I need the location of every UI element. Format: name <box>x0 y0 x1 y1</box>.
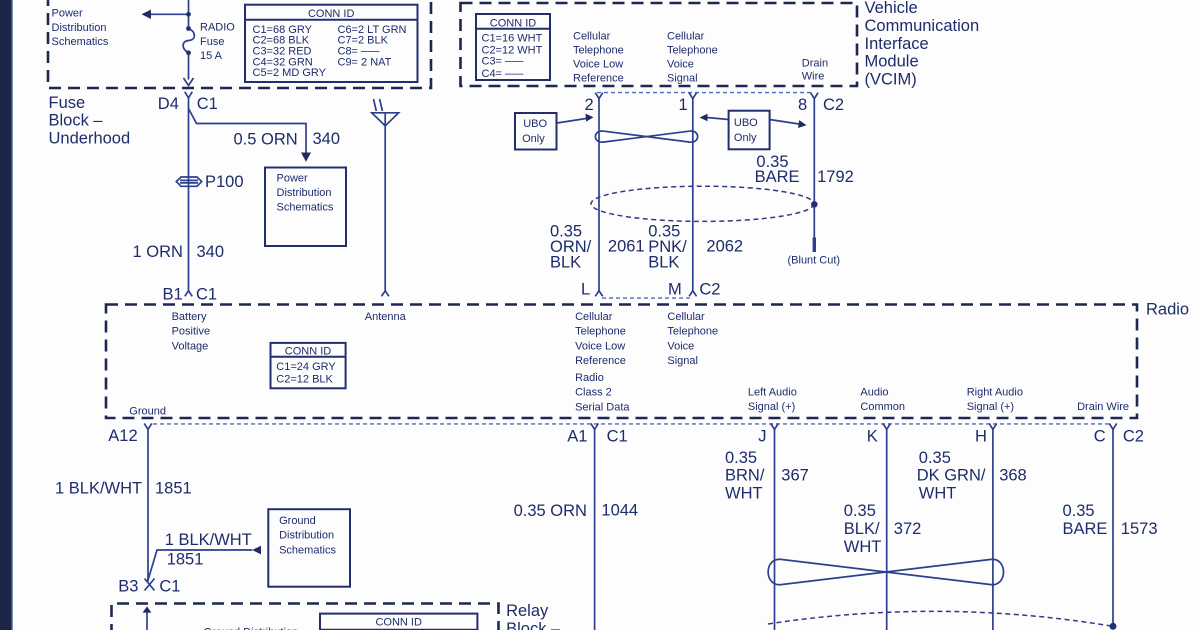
svg-text:Communication: Communication <box>865 17 980 35</box>
svg-text:B1: B1 <box>163 286 183 304</box>
svg-text:(Blunt Cut): (Blunt Cut) <box>788 254 841 266</box>
svg-text:Drain: Drain <box>802 57 828 69</box>
svg-text:BARE: BARE <box>755 168 800 186</box>
svg-text:CONN ID: CONN ID <box>285 346 332 358</box>
svg-text:Distribution: Distribution <box>279 530 334 542</box>
svg-text:Cellular: Cellular <box>667 311 705 323</box>
svg-text:Power: Power <box>52 8 84 20</box>
svg-text:Cellular: Cellular <box>573 31 611 43</box>
svg-text:C1: C1 <box>159 578 180 596</box>
svg-text:Schematics: Schematics <box>279 544 336 556</box>
svg-text:Telephone: Telephone <box>575 326 626 338</box>
svg-text:Underhood: Underhood <box>49 130 131 148</box>
svg-text:Fuse: Fuse <box>200 36 224 48</box>
svg-text:A1: A1 <box>567 428 587 446</box>
svg-text:0.35: 0.35 <box>844 502 876 520</box>
svg-text:Ground: Ground <box>129 406 166 418</box>
svg-text:K: K <box>867 428 878 446</box>
svg-text:BRN/: BRN/ <box>725 467 765 485</box>
svg-text:Reference: Reference <box>575 355 626 367</box>
svg-text:Telephone: Telephone <box>667 45 718 57</box>
svg-text:Vehicle: Vehicle <box>865 0 918 17</box>
svg-text:C1: C1 <box>607 428 628 446</box>
svg-text:Serial Data: Serial Data <box>575 401 630 413</box>
svg-text:0.35 ORN: 0.35 ORN <box>514 502 587 520</box>
svg-text:RADIO: RADIO <box>200 21 235 33</box>
svg-text:BARE: BARE <box>1063 520 1108 538</box>
svg-text:C2: C2 <box>1123 428 1144 446</box>
svg-text:J: J <box>758 428 766 446</box>
svg-text:Schematics: Schematics <box>52 36 109 48</box>
svg-text:CONN ID: CONN ID <box>375 616 422 628</box>
svg-text:C3= –––: C3= ––– <box>482 55 525 67</box>
svg-text:C4= –––: C4= ––– <box>482 68 525 80</box>
svg-text:CONN ID: CONN ID <box>308 8 355 20</box>
svg-text:C2: C2 <box>823 96 844 114</box>
svg-text:C1: C1 <box>197 95 218 113</box>
svg-text:15 A: 15 A <box>200 50 223 62</box>
svg-text:Signal (+): Signal (+) <box>967 401 1014 413</box>
svg-text:BLK: BLK <box>550 254 581 272</box>
svg-text:Block –: Block – <box>49 112 104 130</box>
svg-text:C1: C1 <box>196 286 217 304</box>
svg-text:Cellular: Cellular <box>667 31 705 43</box>
svg-text:Battery: Battery <box>172 311 207 323</box>
svg-text:UBO: UBO <box>734 117 758 129</box>
svg-text:Interface: Interface <box>865 35 929 53</box>
svg-text:1044: 1044 <box>601 501 638 519</box>
svg-text:Voice Low: Voice Low <box>573 59 623 71</box>
svg-text:Ground Distribution: Ground Distribution <box>203 627 298 630</box>
svg-text:0.35: 0.35 <box>919 449 951 467</box>
svg-text:1851: 1851 <box>155 480 192 498</box>
svg-text:Voltage: Voltage <box>172 340 209 352</box>
svg-text:367: 367 <box>781 467 809 485</box>
svg-text:Antenna: Antenna <box>365 311 407 323</box>
svg-text:Cellular: Cellular <box>575 311 613 323</box>
svg-text:1: 1 <box>679 96 688 114</box>
svg-text:Positive: Positive <box>172 326 211 338</box>
svg-text:BLK/: BLK/ <box>844 520 880 538</box>
svg-text:A12: A12 <box>108 427 137 445</box>
svg-text:Audio: Audio <box>860 386 888 398</box>
svg-text:Signal (+): Signal (+) <box>748 401 795 413</box>
svg-text:340: 340 <box>197 243 225 261</box>
svg-text:C1=24 GRY: C1=24 GRY <box>276 361 336 373</box>
svg-text:BLK: BLK <box>648 254 679 272</box>
svg-text:Distribution: Distribution <box>52 22 107 34</box>
svg-text:8: 8 <box>798 96 807 114</box>
svg-text:Power: Power <box>277 172 309 184</box>
svg-text:D4: D4 <box>158 95 179 113</box>
svg-text:Common: Common <box>860 401 905 413</box>
svg-text:368: 368 <box>999 467 1027 485</box>
svg-text:Ground: Ground <box>279 515 316 527</box>
svg-text:Drain Wire: Drain Wire <box>1077 401 1129 413</box>
svg-text:1 BLK/WHT: 1 BLK/WHT <box>165 531 252 549</box>
svg-text:(VCIM): (VCIM) <box>865 70 917 88</box>
svg-text:340: 340 <box>313 130 341 148</box>
svg-text:2: 2 <box>585 96 594 114</box>
svg-text:Radio: Radio <box>575 372 604 384</box>
svg-text:0.5 ORN: 0.5 ORN <box>234 130 298 148</box>
svg-text:CONN ID: CONN ID <box>490 17 537 29</box>
svg-text:Distribution: Distribution <box>277 187 332 199</box>
svg-text:Voice: Voice <box>667 59 694 71</box>
svg-text:H: H <box>975 428 987 446</box>
svg-text:Class 2: Class 2 <box>575 387 612 399</box>
svg-text:Relay: Relay <box>506 602 549 620</box>
svg-text:Voice Low: Voice Low <box>575 340 625 352</box>
svg-text:Voice: Voice <box>667 340 694 352</box>
svg-text:M: M <box>668 281 682 299</box>
svg-text:Only: Only <box>522 133 545 145</box>
svg-text:WHT: WHT <box>919 484 957 502</box>
svg-text:1792: 1792 <box>817 168 854 186</box>
svg-text:1 ORN: 1 ORN <box>133 243 183 261</box>
svg-text:2062: 2062 <box>706 238 743 256</box>
svg-text:C2: C2 <box>699 281 720 299</box>
svg-text:Telephone: Telephone <box>667 326 718 338</box>
svg-text:1573: 1573 <box>1121 520 1158 538</box>
svg-text:Only: Only <box>734 132 757 144</box>
svg-text:WHT: WHT <box>844 538 882 556</box>
svg-text:P100: P100 <box>205 173 244 191</box>
svg-text:Signal: Signal <box>667 73 698 85</box>
svg-text:Radio: Radio <box>1146 301 1189 319</box>
svg-text:2061: 2061 <box>608 238 645 256</box>
svg-text:372: 372 <box>894 520 922 538</box>
svg-text:C: C <box>1094 428 1106 446</box>
svg-text:1 BLK/WHT: 1 BLK/WHT <box>55 480 142 498</box>
svg-text:DK GRN/: DK GRN/ <box>917 467 986 485</box>
svg-text:0.35: 0.35 <box>725 449 757 467</box>
svg-text:Reference: Reference <box>573 73 624 85</box>
svg-text:Fuse: Fuse <box>49 94 86 112</box>
svg-text:B3: B3 <box>118 578 138 596</box>
svg-text:Wire: Wire <box>802 71 825 83</box>
svg-text:UBO: UBO <box>523 118 547 130</box>
svg-text:Schematics: Schematics <box>277 201 334 213</box>
svg-text:Block –: Block – <box>506 620 561 630</box>
svg-text:Telephone: Telephone <box>573 45 624 57</box>
svg-text:L: L <box>581 281 590 299</box>
svg-text:0.35: 0.35 <box>1063 502 1095 520</box>
svg-text:Signal: Signal <box>667 355 698 367</box>
svg-text:C5=2 MD GRY: C5=2 MD GRY <box>253 67 327 79</box>
svg-text:WHT: WHT <box>725 484 763 502</box>
svg-text:C1=16 WHT: C1=16 WHT <box>482 32 543 44</box>
svg-text:Module: Module <box>865 53 919 71</box>
svg-text:Right Audio: Right Audio <box>967 386 1023 398</box>
svg-text:C2=12 BLK: C2=12 BLK <box>276 374 333 386</box>
svg-text:1851: 1851 <box>167 550 204 568</box>
svg-text:Left Audio: Left Audio <box>748 386 797 398</box>
svg-text:C9= 2 NAT: C9= 2 NAT <box>338 56 392 68</box>
